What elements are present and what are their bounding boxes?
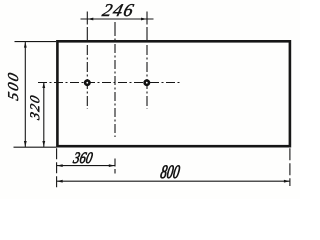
dimension line 500 (left outer) (24, 42, 26, 147)
hole right (145, 81, 149, 85)
label 246 (101, 4, 134, 16)
dimension line 360 (bottom left) (57, 165, 115, 167)
hole left (85, 81, 89, 85)
label 800 (160, 165, 181, 178)
arrow 500 top (24, 42, 27, 48)
arrow 246 right (141, 18, 147, 21)
arrow 360 right (109, 164, 115, 167)
extension line right below plate (for 800) (289, 148, 291, 186)
label 500 (rotated) (8, 72, 18, 101)
centerline horizontal through holes (38, 82, 180, 84)
arrow 360 left (57, 164, 63, 167)
arrow 800 right (284, 180, 290, 183)
plate outline (rectangle) (57, 41, 290, 146)
centerline vertical left hole (86, 45, 88, 109)
extension line right hole above plate (146, 12, 148, 43)
arrow 246 left (87, 18, 93, 21)
dimension line 800 (bottom overall) (57, 180, 290, 182)
centerline middle axis below plate lower dash (114, 169, 116, 174)
label 320 (rotated) (30, 95, 39, 120)
dimension line 320 (left inner) (43, 82, 45, 147)
arrow 800 left (57, 180, 63, 183)
arrow 320 bottom (42, 141, 45, 147)
extension line bottom for 500/320 (14, 146, 57, 148)
centerline vertical right hole (146, 45, 148, 109)
extension line left below plate (for 360/800) (56, 148, 58, 190)
dimension line 246 (top) (81, 18, 154, 20)
centerline vertical middle axis (114, 44, 116, 137)
extension line top for 500 (15, 41, 57, 43)
centerline middle axis below plate (360 right extension) (114, 159, 116, 167)
label 360 (73, 152, 94, 163)
arrow 320 top (42, 82, 45, 88)
arrow 500 bottom (24, 141, 27, 147)
centerline middle axis above plate (114, 22, 116, 41)
extension line left hole above plate (86, 12, 88, 43)
